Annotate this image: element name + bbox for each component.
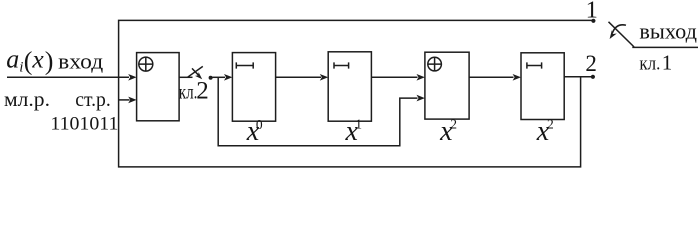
svg-text:1: 1 xyxy=(586,0,598,24)
svg-text:кл.: кл. xyxy=(639,54,660,75)
svg-text:(: ( xyxy=(24,47,33,76)
svg-text:1: 1 xyxy=(355,116,362,131)
svg-text:выход: выход xyxy=(639,19,697,44)
svg-text:a: a xyxy=(6,44,19,73)
svg-text:0: 0 xyxy=(256,117,263,132)
svg-text:x: x xyxy=(31,45,44,74)
svg-text:): ) xyxy=(45,47,54,76)
svg-text:2: 2 xyxy=(547,117,554,132)
svg-text:2: 2 xyxy=(450,117,457,132)
svg-text:1101011: 1101011 xyxy=(50,114,118,135)
svg-text:кл.: кл. xyxy=(179,82,198,104)
svg-text:ст.р.: ст.р. xyxy=(75,90,111,111)
svg-text:мл.р.: мл.р. xyxy=(4,90,50,111)
svg-text:1: 1 xyxy=(662,51,673,75)
svg-text:2: 2 xyxy=(585,51,597,76)
svg-text:2: 2 xyxy=(196,78,209,105)
svg-text:вход: вход xyxy=(58,48,103,73)
